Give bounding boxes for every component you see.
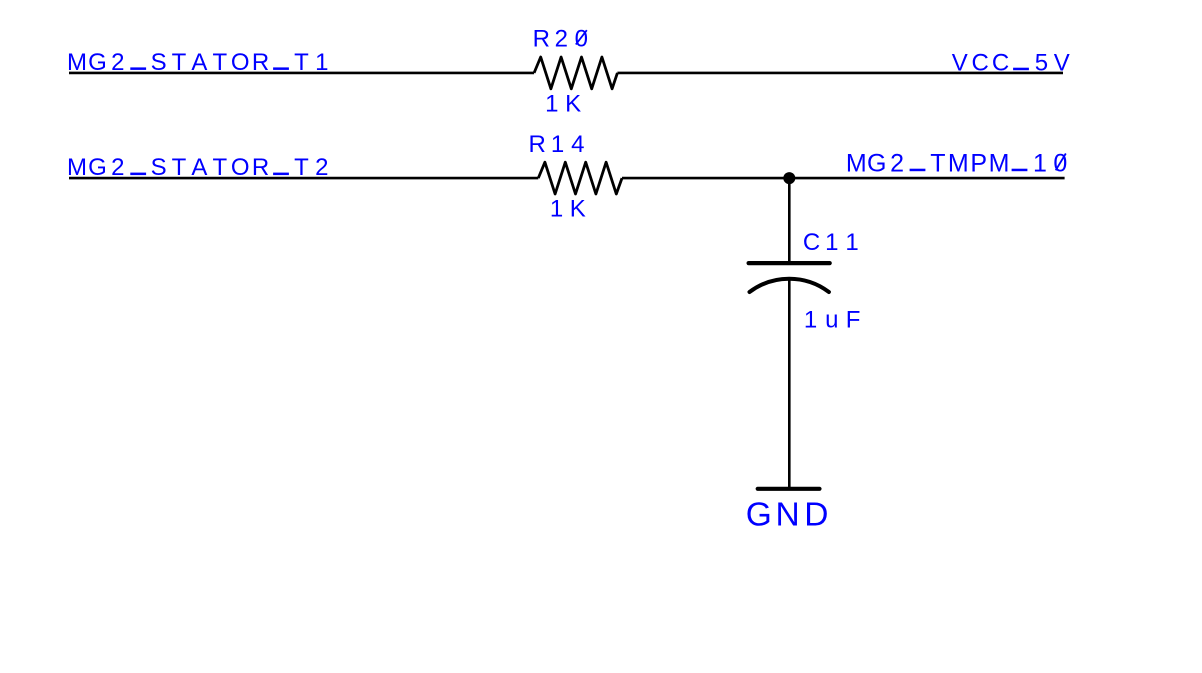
- svg-text:u: u: [825, 307, 838, 334]
- svg-text:1: 1: [845, 229, 858, 256]
- svg-text:5: 5: [1035, 49, 1048, 76]
- svg-text:G: G: [88, 49, 107, 76]
- svg-text:A: A: [191, 154, 207, 181]
- svg-text:1: 1: [1033, 149, 1047, 177]
- svg-text:T: T: [294, 49, 309, 76]
- svg-text:D: D: [804, 497, 828, 534]
- svg-text:S: S: [151, 154, 167, 181]
- svg-text:K: K: [570, 196, 586, 223]
- svg-text:V: V: [1054, 49, 1070, 76]
- svg-text:N: N: [775, 497, 799, 534]
- svg-text:G: G: [867, 149, 886, 177]
- svg-text:R: R: [529, 131, 546, 158]
- svg-text:2: 2: [890, 149, 904, 177]
- svg-text:2: 2: [111, 49, 124, 76]
- svg-text:1: 1: [545, 90, 558, 117]
- svg-text:T: T: [172, 154, 187, 181]
- svg-text:0: 0: [575, 26, 588, 53]
- svg-text:G: G: [746, 497, 772, 534]
- svg-text:2: 2: [315, 154, 328, 181]
- svg-text:K: K: [565, 90, 581, 117]
- svg-text:R: R: [533, 26, 550, 53]
- svg-text:M: M: [846, 149, 867, 177]
- svg-text:1: 1: [551, 131, 564, 158]
- svg-text:O: O: [231, 154, 250, 181]
- svg-text:1: 1: [550, 196, 563, 223]
- svg-text:M: M: [67, 49, 87, 76]
- svg-text:G: G: [88, 154, 107, 181]
- svg-text:P: P: [970, 149, 987, 177]
- svg-text:1: 1: [825, 229, 838, 256]
- svg-text:O: O: [231, 49, 250, 76]
- svg-text:T: T: [294, 154, 309, 181]
- svg-text:V: V: [952, 49, 968, 76]
- svg-text:T: T: [212, 154, 227, 181]
- svg-text:2: 2: [111, 154, 124, 181]
- svg-text:1: 1: [804, 307, 817, 334]
- svg-text:M: M: [989, 149, 1010, 177]
- svg-text:F: F: [846, 307, 861, 334]
- svg-text:T: T: [930, 149, 945, 177]
- svg-text:M: M: [948, 149, 969, 177]
- svg-text:A: A: [191, 49, 207, 76]
- svg-text:T: T: [172, 49, 187, 76]
- svg-text:S: S: [151, 49, 167, 76]
- svg-text:C: C: [972, 49, 989, 76]
- svg-text:R: R: [252, 49, 269, 76]
- svg-text:C: C: [992, 49, 1009, 76]
- svg-text:1: 1: [315, 49, 328, 76]
- svg-text:C: C: [803, 229, 820, 256]
- svg-text:4: 4: [571, 131, 584, 158]
- svg-text:R: R: [252, 154, 269, 181]
- svg-text:T: T: [212, 49, 227, 76]
- svg-text:2: 2: [555, 26, 568, 53]
- svg-text:M: M: [67, 154, 87, 181]
- svg-text:0: 0: [1053, 149, 1067, 177]
